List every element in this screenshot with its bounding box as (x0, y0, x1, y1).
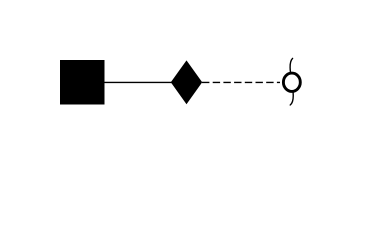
reducing-end wavy line (290, 58, 293, 105)
residue filled diamond (NeuAc) (171, 60, 202, 104)
residue filled square (GalNAc) (60, 60, 105, 105)
reducing-end circle (283, 73, 300, 91)
wire solid linkage (square to diamond) (104, 81, 172, 83)
wire dashed linkage (diamond to reducing end) (202, 81, 280, 83)
